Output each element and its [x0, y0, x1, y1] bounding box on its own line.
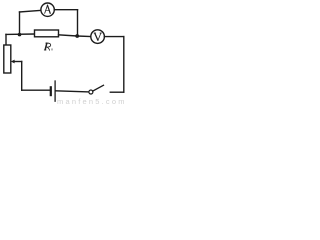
svg-text:manfen5.com: manfen5.com [57, 97, 127, 106]
